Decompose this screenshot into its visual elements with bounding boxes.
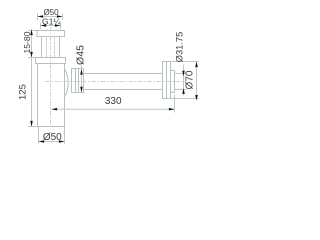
svg-text:15-80: 15-80 <box>22 31 32 53</box>
svg-text:Ø31.75: Ø31.75 <box>174 32 184 63</box>
svg-text:Ø50: Ø50 <box>43 132 62 143</box>
svg-text:Ø45: Ø45 <box>75 45 87 65</box>
svg-text:330: 330 <box>105 96 122 107</box>
svg-text:Ø70: Ø70 <box>185 70 196 89</box>
svg-text:G1¼: G1¼ <box>42 16 61 26</box>
svg-text:125: 125 <box>17 84 28 100</box>
